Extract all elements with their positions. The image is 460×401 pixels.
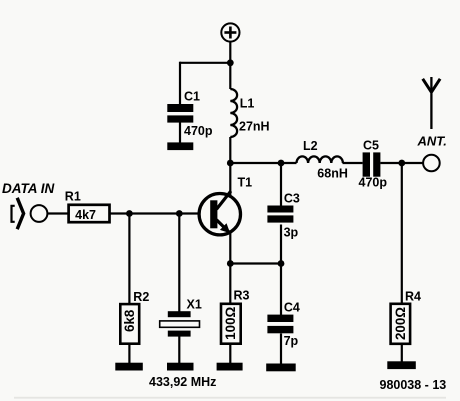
svg-text:L1: L1 bbox=[240, 97, 255, 111]
svg-text:980038 - 13: 980038 - 13 bbox=[380, 378, 447, 392]
svg-text:C5: C5 bbox=[363, 139, 379, 153]
svg-text:X1: X1 bbox=[187, 298, 202, 312]
svg-text:R4: R4 bbox=[405, 290, 421, 304]
svg-text:100Ω: 100Ω bbox=[223, 306, 238, 339]
svg-text:R2: R2 bbox=[133, 290, 149, 304]
svg-text:C1: C1 bbox=[184, 90, 200, 104]
svg-text:L2: L2 bbox=[303, 139, 318, 153]
svg-text:R3: R3 bbox=[234, 289, 250, 303]
svg-text:3p: 3p bbox=[284, 226, 299, 240]
svg-text:433,92 MHz: 433,92 MHz bbox=[149, 375, 216, 389]
svg-text:4k7: 4k7 bbox=[75, 208, 96, 222]
svg-text:68nH: 68nH bbox=[317, 167, 348, 181]
svg-text:27nH: 27nH bbox=[239, 120, 270, 134]
svg-text:6k8: 6k8 bbox=[122, 309, 137, 332]
svg-text:T1: T1 bbox=[238, 176, 253, 190]
svg-text:DATA IN: DATA IN bbox=[2, 181, 54, 196]
svg-text:R1: R1 bbox=[65, 190, 81, 204]
svg-text:ANT.: ANT. bbox=[417, 134, 447, 149]
svg-text:C4: C4 bbox=[284, 301, 300, 315]
svg-text:C3: C3 bbox=[284, 192, 300, 206]
svg-text:7p: 7p bbox=[284, 334, 299, 348]
svg-text:200Ω: 200Ω bbox=[393, 307, 408, 340]
svg-text:470p: 470p bbox=[184, 124, 213, 138]
svg-text:470p: 470p bbox=[359, 176, 388, 190]
